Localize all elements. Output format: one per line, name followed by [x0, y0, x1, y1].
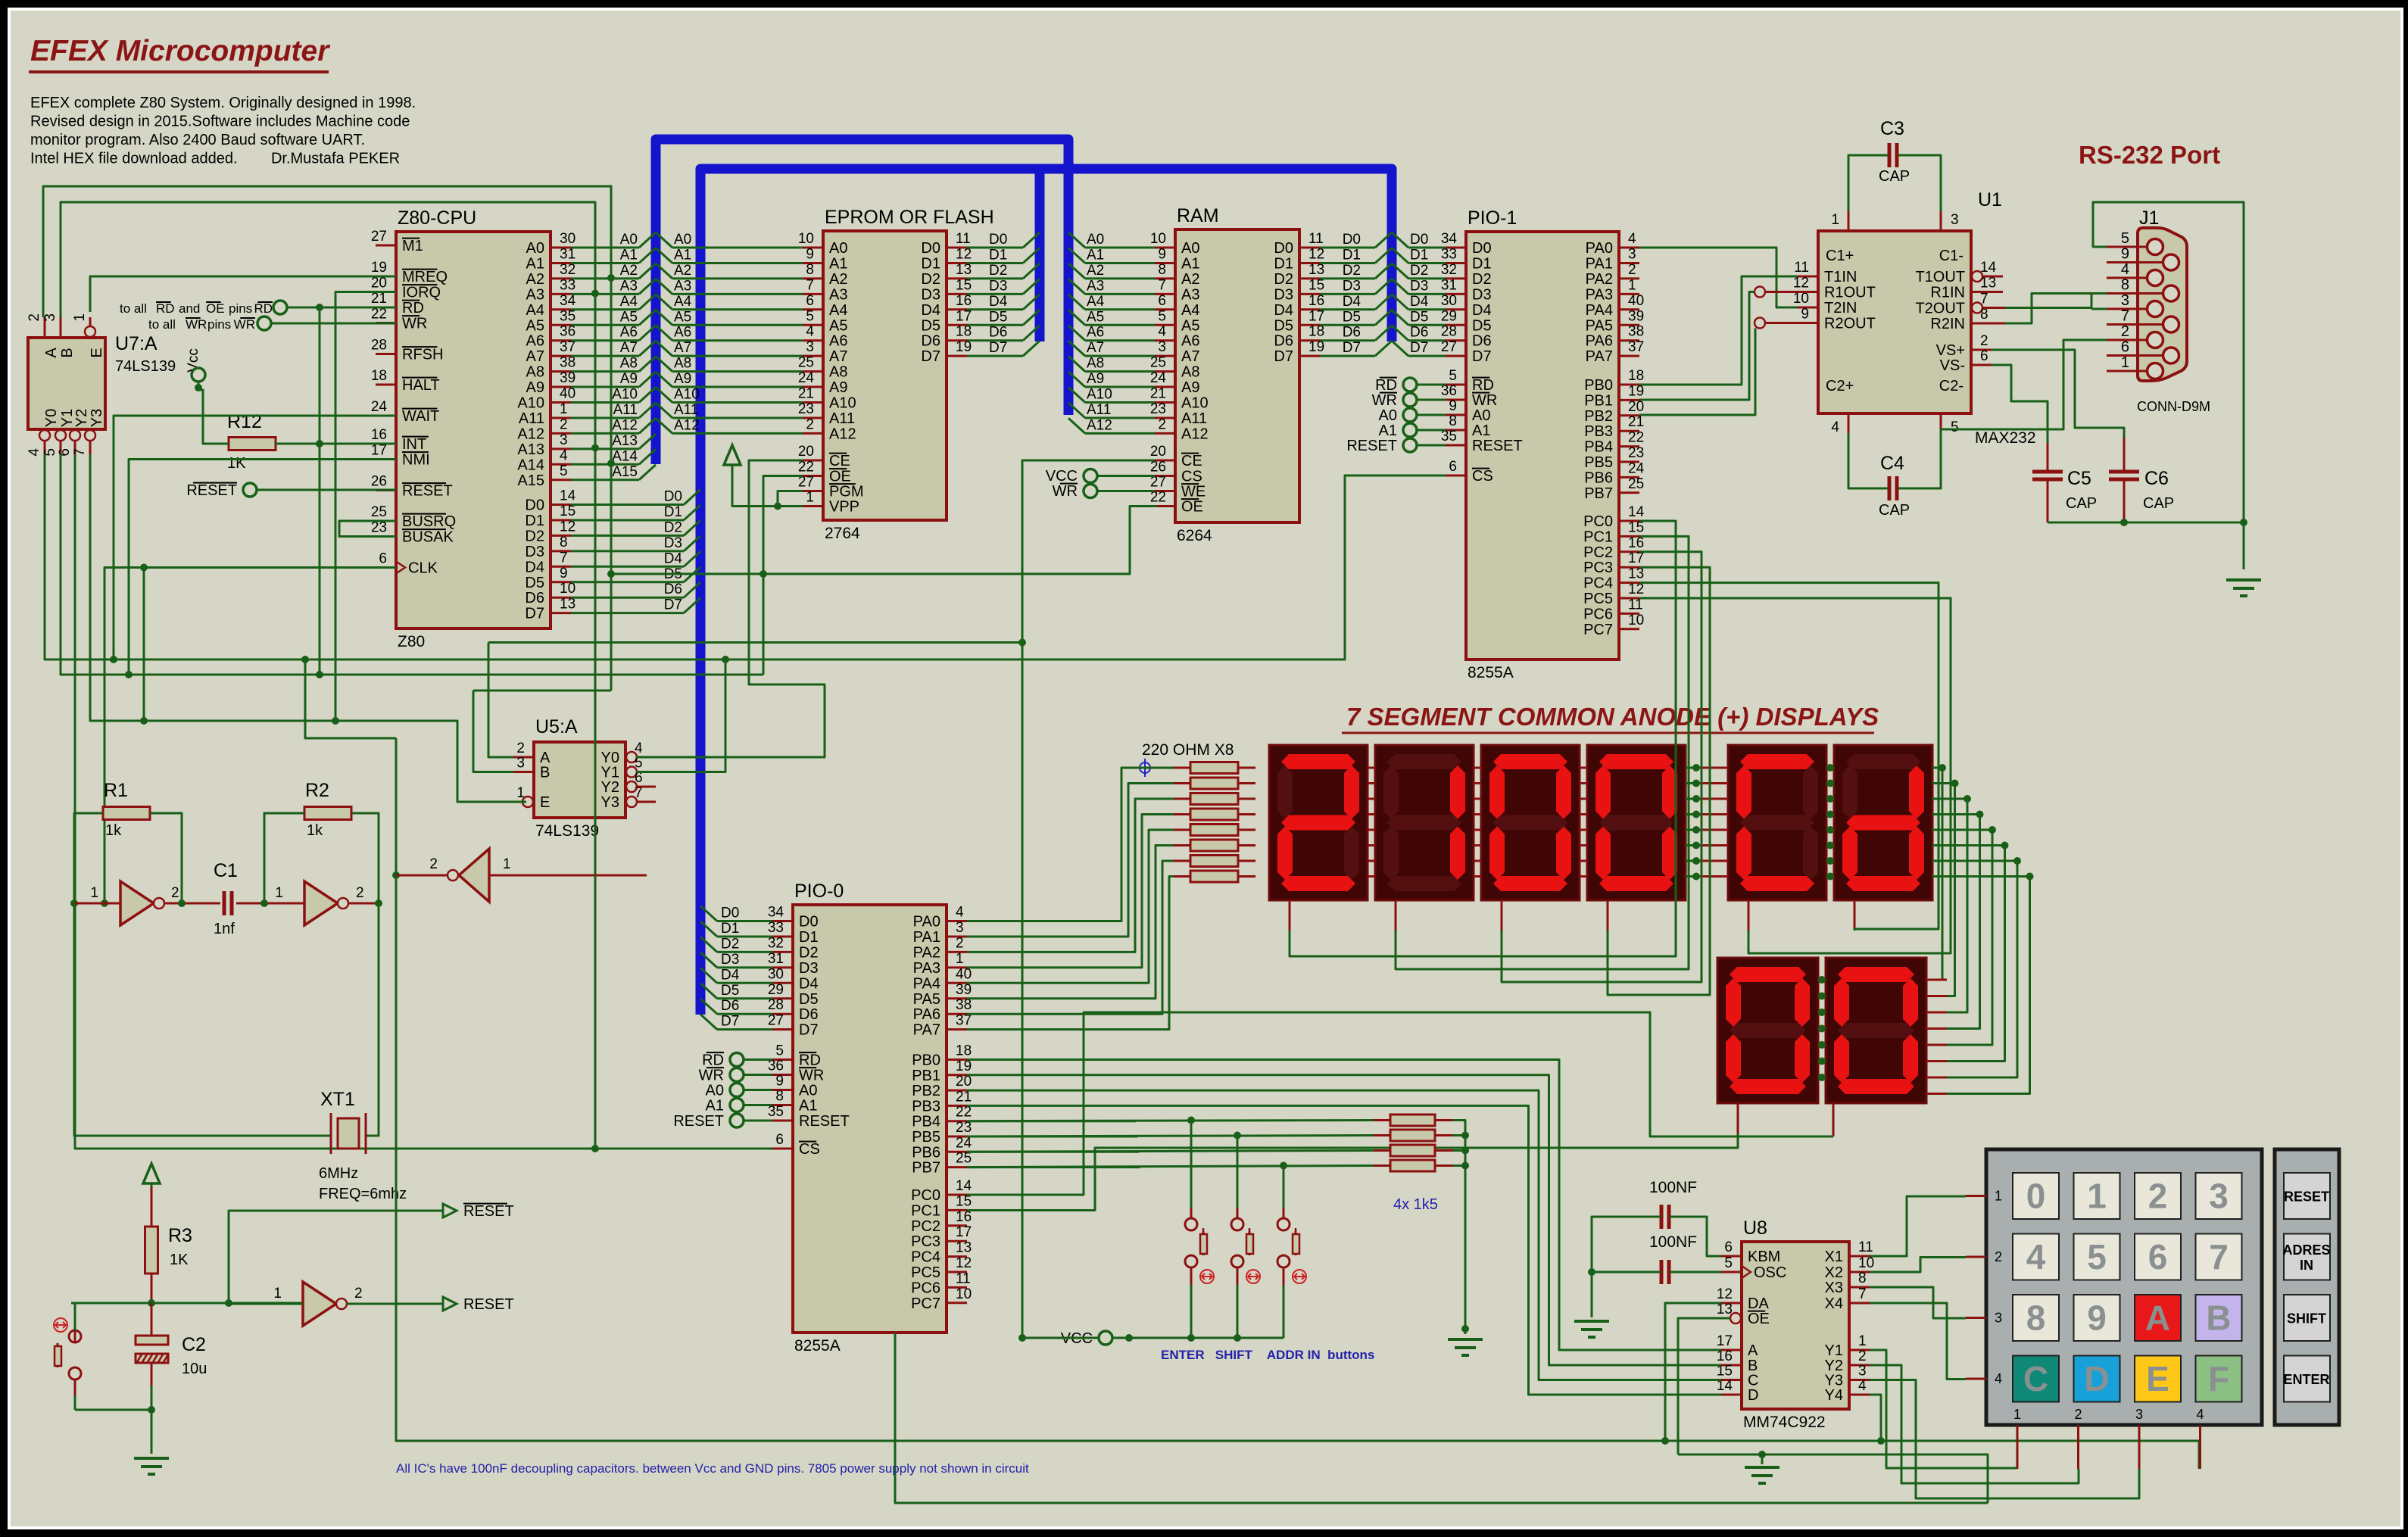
display digit 8 (0)	[1826, 958, 1926, 1103]
svg-text:T2IN: T2IN	[1824, 300, 1857, 316]
svg-text:18: 18	[1628, 368, 1644, 384]
svg-text:D3: D3	[989, 278, 1007, 294]
wire J1 pin2 route down-left	[1941, 340, 2107, 488]
svg-text:18: 18	[1308, 324, 1324, 340]
bus A to RAM A0-A12 wires	[1068, 232, 1085, 248]
svg-text:A0: A0	[1472, 407, 1490, 424]
svg-text:40: 40	[1628, 293, 1644, 309]
long bottom wire to PIO-0 area	[895, 1333, 1988, 1503]
svg-text:D1: D1	[799, 929, 819, 946]
svg-text:A1: A1	[829, 255, 847, 272]
svg-text:1: 1	[956, 951, 964, 967]
svg-text:25: 25	[798, 355, 814, 371]
svg-text:19: 19	[956, 339, 972, 355]
segment wires digit6 to bottom display pair	[1932, 768, 1947, 980]
svg-text:16: 16	[956, 293, 972, 309]
svg-text:D5: D5	[1343, 309, 1361, 325]
svg-text:1: 1	[1995, 1189, 2002, 1204]
power VCC arrow above R3	[143, 1164, 160, 1183]
svg-text:24: 24	[798, 370, 815, 386]
svg-text:3: 3	[2135, 1407, 2143, 1422]
svg-text:220 OHM X8: 220 OHM X8	[1142, 741, 1234, 759]
svg-text:2: 2	[516, 740, 525, 756]
svg-text:34: 34	[560, 293, 576, 309]
capacitor C3 CAP	[1888, 143, 1892, 167]
display digit 7 (0)	[1717, 958, 1818, 1103]
svg-text:A10: A10	[517, 395, 544, 412]
svg-text:pins: pins	[229, 301, 252, 316]
svg-text:D1: D1	[1343, 247, 1361, 263]
wire IORQ down to U5 E feed rail	[335, 292, 396, 722]
svg-text:20: 20	[1628, 399, 1644, 415]
svg-text:D6: D6	[1410, 325, 1428, 341]
svg-text:3: 3	[516, 756, 525, 772]
svg-text:3: 3	[560, 432, 568, 448]
svg-text:1: 1	[806, 490, 814, 506]
wire U5 B feed from y912 rail	[473, 691, 513, 772]
display digit 6 (d)	[1834, 745, 1932, 900]
svg-text:74LS139: 74LS139	[535, 822, 599, 840]
svg-text:6: 6	[2148, 1237, 2168, 1277]
wires PIO-1 PC0-PC3 to display digit 1-4 commons	[1289, 900, 1291, 931]
svg-text:22: 22	[798, 460, 814, 475]
capacitor C5 CAP	[2032, 470, 2063, 474]
keypad side panel RESET ADRESIN SHIFT ENTER	[2275, 1149, 2339, 1425]
svg-text:33: 33	[560, 277, 575, 293]
svg-text:D7: D7	[721, 1014, 739, 1030]
svg-text:PB7: PB7	[1584, 485, 1613, 502]
svg-text:D1: D1	[1472, 255, 1492, 272]
svg-text:13: 13	[956, 262, 972, 278]
svg-text:R12: R12	[227, 411, 262, 432]
svg-text:All IC's have 100nF decoupling: All IC's have 100nF decoupling capacitor…	[396, 1461, 1029, 1476]
svg-text:D2: D2	[1274, 271, 1293, 288]
svg-text:D7: D7	[799, 1022, 819, 1039]
terminal VCC at RAM CS	[1084, 469, 1097, 483]
svg-text:15: 15	[956, 277, 972, 293]
svg-text:PC4: PC4	[911, 1249, 940, 1266]
svg-text:Intel HEX file download added.: Intel HEX file download added. Dr.Mustaf…	[30, 151, 400, 167]
svg-text:D3: D3	[721, 952, 739, 968]
svg-text:U1: U1	[1978, 189, 2002, 210]
svg-text:PA2: PA2	[913, 944, 940, 961]
svg-text:PA6: PA6	[913, 1006, 940, 1023]
svg-text:34: 34	[768, 905, 784, 921]
svg-text:18: 18	[371, 368, 387, 384]
svg-text:34: 34	[1441, 231, 1458, 247]
wire U7 Y1 down to rail y891	[61, 454, 763, 675]
svg-text:PB5: PB5	[1584, 454, 1613, 471]
svg-text:X3: X3	[1825, 1280, 1843, 1296]
output terminal RESET	[443, 1297, 457, 1311]
wire U8 Y2 to keypad column 2	[1870, 1365, 2079, 1483]
svg-text:A13: A13	[612, 433, 638, 449]
svg-text:39: 39	[1628, 308, 1644, 324]
wire U1 R1IN stub	[1971, 291, 2003, 293]
svg-text:RD: RD	[799, 1052, 821, 1069]
svg-text:ADRES: ADRES	[2282, 1242, 2330, 1258]
svg-text:D0: D0	[989, 232, 1007, 248]
svg-text:6: 6	[57, 448, 73, 457]
svg-text:RD: RD	[156, 301, 175, 316]
svg-text:RAM: RAM	[1177, 205, 1219, 226]
wire 100NF cap1 to U8 KBM	[1670, 1217, 1721, 1256]
svg-text:WE: WE	[1181, 484, 1206, 500]
wire 1k5 pack common to ground	[1453, 1121, 1465, 1335]
svg-text:CAP: CAP	[2066, 495, 2097, 512]
display digit 2 (1)	[1375, 745, 1474, 900]
svg-text:32: 32	[1441, 262, 1457, 278]
svg-text:D7: D7	[989, 340, 1007, 356]
svg-text:D6: D6	[989, 325, 1007, 341]
svg-text:A5: A5	[1087, 309, 1104, 325]
display digit 4 (0)	[1587, 745, 1686, 900]
svg-text:A9: A9	[674, 371, 691, 387]
svg-text:A1: A1	[1472, 422, 1490, 439]
svg-text:2: 2	[2074, 1407, 2082, 1422]
bus D to PIO-0 D0-D7 wires	[700, 906, 717, 921]
svg-text:A12: A12	[1087, 417, 1112, 433]
wire reset node to inverter4	[229, 1303, 303, 1305]
svg-text:A5: A5	[1181, 317, 1199, 334]
svg-text:A10: A10	[829, 395, 856, 412]
svg-text:Y4: Y4	[1825, 1387, 1843, 1404]
svg-text:A2: A2	[1087, 263, 1104, 279]
svg-text:31: 31	[560, 246, 575, 262]
svg-text:CONN-D9M: CONN-D9M	[2137, 399, 2210, 414]
wire 100NF cap2 to U8 OSC	[1670, 1271, 1721, 1274]
svg-text:24: 24	[1150, 370, 1167, 386]
svg-text:33: 33	[768, 920, 784, 936]
svg-text:D4: D4	[799, 975, 819, 992]
svg-text:5: 5	[1724, 1255, 1733, 1271]
svg-text:D7: D7	[664, 597, 682, 613]
svg-text:20: 20	[798, 444, 814, 460]
svg-text:RESET: RESET	[1346, 438, 1397, 454]
svg-text:14: 14	[560, 488, 576, 504]
svg-text:BUSRQ: BUSRQ	[402, 513, 456, 530]
wire U7 pin3 net down right of Z80 with junctions on A3 and A13	[61, 202, 595, 875]
bus D (data bus Z80 to EPROM/RAM/PIO)	[700, 169, 1392, 1015]
svg-text:19: 19	[1308, 339, 1324, 355]
svg-text:D0: D0	[1472, 240, 1492, 257]
svg-text:13: 13	[956, 1240, 972, 1256]
capacitor C6 CAP	[2109, 470, 2139, 474]
svg-text:D2: D2	[1343, 263, 1361, 279]
svg-text:5: 5	[1951, 419, 1959, 435]
svg-text:9: 9	[2087, 1298, 2107, 1338]
svg-text:A4: A4	[1181, 302, 1199, 319]
wire R2 left down	[264, 813, 304, 903]
svg-text:7: 7	[806, 277, 814, 293]
svg-text:11: 11	[1308, 231, 1324, 247]
svg-text:9: 9	[1158, 246, 1166, 262]
svg-text:15: 15	[956, 1193, 972, 1209]
wire Z80 BUSRQ-BUSAK jog	[339, 521, 396, 537]
svg-text:D4: D4	[1343, 294, 1362, 310]
svg-text:B: B	[540, 765, 550, 781]
svg-text:A4: A4	[1087, 294, 1105, 310]
wire inverter1 output to C1	[164, 903, 220, 905]
wire 100NF caps left to ground	[1592, 1217, 1661, 1272]
svg-text:6: 6	[2121, 339, 2129, 356]
svg-text:8255A: 8255A	[794, 1337, 841, 1355]
svg-text:D1: D1	[989, 247, 1007, 263]
svg-text:R3: R3	[168, 1225, 192, 1246]
svg-text:15: 15	[1628, 519, 1644, 535]
svg-text:17: 17	[1628, 550, 1644, 566]
svg-text:CAP: CAP	[1879, 168, 1910, 185]
svg-text:1: 1	[273, 1286, 282, 1302]
svg-text:PB1: PB1	[1584, 392, 1613, 409]
svg-text:PC0: PC0	[911, 1187, 940, 1204]
svg-text:9: 9	[775, 1074, 784, 1090]
svg-text:PC0: PC0	[1583, 513, 1613, 530]
wire PIO-1 PB0 to U1 T1IN	[1639, 276, 1798, 385]
svg-text:31: 31	[1441, 277, 1457, 293]
svg-text:1: 1	[2087, 1177, 2107, 1216]
svg-text:VS-: VS-	[1940, 357, 1965, 374]
push button SHIFT	[1234, 1132, 1241, 1139]
svg-text:40: 40	[560, 386, 575, 402]
svg-text:HALT: HALT	[402, 377, 440, 394]
svg-text:A13: A13	[517, 441, 544, 458]
svg-text:8: 8	[1858, 1270, 1867, 1286]
svg-text:28: 28	[768, 997, 784, 1013]
svg-text:3: 3	[1951, 212, 1959, 228]
svg-text:A1: A1	[1087, 247, 1104, 263]
svg-text:30: 30	[560, 231, 575, 247]
svg-text:12: 12	[1717, 1286, 1733, 1302]
svg-text:A9: A9	[829, 379, 847, 396]
svg-text:D6: D6	[799, 1006, 819, 1023]
svg-text:11: 11	[956, 1270, 971, 1286]
svg-text:PB4: PB4	[1584, 439, 1613, 456]
svg-text:A0: A0	[1379, 407, 1397, 424]
svg-text:17: 17	[956, 308, 972, 324]
wire U7 pin2 net down right of Z80 with junctions on A2 and A14	[43, 186, 611, 691]
svg-text:D3: D3	[664, 535, 682, 551]
svg-text:PB6: PB6	[912, 1144, 940, 1161]
wire C5 C6 bottoms to ground rail	[2047, 479, 2049, 522]
svg-text:D0: D0	[1343, 232, 1361, 248]
capacitor C2 10u electrolytic	[136, 1336, 168, 1345]
svg-text:C2-: C2-	[1939, 378, 1964, 394]
wire inverter3 input to CS net	[489, 874, 647, 877]
wire U1 T1OUT stub	[1984, 276, 2003, 278]
svg-text:CS: CS	[1472, 468, 1493, 485]
terminal VCC for buttons	[1099, 1331, 1112, 1345]
svg-text:28: 28	[371, 338, 387, 354]
terminal RESET near Z80	[243, 483, 257, 497]
svg-text:D1: D1	[664, 504, 682, 520]
svg-text:15: 15	[1308, 277, 1324, 293]
svg-text:10: 10	[798, 231, 814, 247]
svg-text:A0: A0	[799, 1083, 817, 1099]
svg-text:A9: A9	[526, 379, 544, 396]
svg-text:Y0: Y0	[43, 409, 60, 427]
wire U8 X3 to keypad row 3	[1870, 1287, 1966, 1318]
svg-text:A10: A10	[1087, 387, 1112, 403]
svg-text:RD: RD	[254, 301, 273, 316]
svg-text:6: 6	[1158, 293, 1166, 309]
wire RAM OE to y758 rail	[763, 507, 1157, 575]
svg-text:C: C	[2023, 1359, 2048, 1398]
svg-text:A4: A4	[620, 294, 638, 310]
chip EPROM OR FLASH 2764	[798, 207, 994, 542]
svg-text:4: 4	[2026, 1237, 2046, 1277]
svg-text:D3: D3	[1343, 278, 1361, 294]
svg-text:10: 10	[1628, 613, 1644, 628]
wire U5 A feed from y848 rail	[488, 643, 513, 758]
svg-text:D0: D0	[799, 914, 819, 931]
svg-text:A0: A0	[706, 1083, 724, 1099]
svg-text:INT: INT	[402, 436, 426, 453]
svg-text:A12: A12	[612, 417, 638, 433]
ground under 100NF caps	[1574, 1320, 1609, 1323]
svg-text:A6: A6	[829, 333, 847, 350]
resistor R2 1k	[304, 807, 351, 820]
svg-text:6: 6	[1724, 1239, 1733, 1255]
svg-text:MAX232: MAX232	[1975, 429, 2036, 447]
svg-text:D5: D5	[1472, 317, 1492, 334]
svg-text:OE: OE	[1748, 1311, 1770, 1327]
svg-text:7: 7	[560, 550, 568, 566]
svg-text:18: 18	[956, 324, 972, 340]
keypad column pin stubs	[2017, 1425, 2019, 1469]
svg-text:A11: A11	[1181, 410, 1207, 427]
svg-text:2: 2	[560, 416, 568, 432]
svg-text:D7: D7	[921, 348, 940, 365]
svg-text:1: 1	[1831, 212, 1839, 228]
svg-text:D5: D5	[1274, 317, 1293, 334]
svg-text:20: 20	[1150, 444, 1166, 460]
svg-text:4: 4	[1858, 1378, 1867, 1394]
svg-text:D1: D1	[1274, 255, 1293, 272]
svg-text:100NF: 100NF	[1649, 1233, 1697, 1251]
svg-text:13: 13	[560, 597, 575, 613]
svg-text:RD: RD	[402, 300, 424, 316]
svg-text:VCC: VCC	[1046, 468, 1078, 485]
svg-text:30: 30	[768, 966, 784, 982]
svg-text:A: A	[2145, 1298, 2170, 1338]
svg-text:Z80-CPU: Z80-CPU	[398, 207, 476, 229]
wire R1 left + crystal left vertical	[74, 813, 331, 1136]
svg-text:12: 12	[1308, 246, 1324, 262]
svg-text:A5: A5	[526, 317, 544, 334]
svg-text:D0: D0	[1410, 232, 1428, 248]
wire R2 right down to crystal right	[352, 813, 379, 1136]
svg-text:PC3: PC3	[1583, 560, 1613, 576]
svg-text:A7: A7	[829, 348, 847, 365]
svg-text:A11: A11	[829, 410, 855, 427]
svg-text:PC3: PC3	[911, 1233, 940, 1250]
svg-text:A12: A12	[1181, 426, 1209, 442]
svg-text:1K: 1K	[170, 1252, 189, 1268]
svg-text:PIO-0: PIO-0	[794, 881, 844, 902]
svg-text:PA7: PA7	[1586, 348, 1613, 365]
svg-text:A6: A6	[620, 325, 638, 341]
svg-text:A1: A1	[620, 247, 638, 263]
svg-text:D0: D0	[921, 240, 940, 257]
svg-text:23: 23	[1150, 401, 1166, 417]
svg-text:28: 28	[1441, 324, 1457, 340]
svg-text:A10: A10	[1181, 395, 1209, 412]
long rail y848 to RAM CE vertical	[488, 641, 1022, 644]
svg-text:16: 16	[1628, 535, 1644, 551]
svg-text:CS: CS	[1181, 469, 1202, 485]
svg-text:15: 15	[560, 503, 575, 519]
svg-text:D1: D1	[1410, 247, 1428, 263]
svg-text:A10: A10	[612, 387, 638, 403]
svg-text:7: 7	[1858, 1286, 1867, 1302]
svg-text:74LS139: 74LS139	[115, 358, 176, 375]
svg-text:4: 4	[1158, 324, 1166, 340]
svg-text:WR: WR	[799, 1068, 824, 1084]
wire PIO-0 PC1 to bottom display digit 7 common	[1737, 1103, 1739, 1133]
svg-text:5: 5	[2087, 1237, 2107, 1277]
svg-text:6: 6	[379, 551, 387, 567]
wire inverter2 output	[348, 903, 379, 905]
EPROM D0-D7 wires into EPROM D branch bus	[967, 247, 1023, 249]
wire EPROM PGM to VPP junction	[778, 491, 803, 507]
svg-text:2: 2	[1858, 1348, 1867, 1364]
bus A to EPROM A0-A12 wires	[656, 232, 672, 248]
segment wires across gap digit5-digit6 with junction dots	[1826, 767, 1832, 769]
svg-text:100NF: 100NF	[1649, 1179, 1697, 1196]
svg-text:A0: A0	[1087, 232, 1104, 248]
svg-text:6: 6	[1449, 459, 1457, 475]
wires PIO-0 PB4-PB7 to 4x1k5 resistor pack	[967, 1120, 1136, 1122]
svg-text:7: 7	[2121, 308, 2129, 325]
svg-text:D2: D2	[989, 263, 1007, 279]
svg-text:A4: A4	[526, 302, 544, 319]
power VCC arrow at EPROM VPP	[724, 445, 741, 465]
terminals RD WR A0 A1 RESET at PIO-1	[1403, 378, 1417, 391]
svg-text:3: 3	[42, 313, 58, 322]
svg-text:D3: D3	[1410, 278, 1428, 294]
svg-text:19: 19	[371, 260, 387, 276]
svg-text:37: 37	[1628, 339, 1644, 355]
svg-text:R1IN: R1IN	[1930, 285, 1965, 301]
svg-text:ENTER SHIFT ADDR IN butt: ENTER SHIFT ADDR IN buttons	[1161, 1348, 1374, 1362]
svg-text:C6: C6	[2144, 468, 2169, 489]
svg-text:RS-232 Port: RS-232 Port	[2079, 141, 2220, 169]
svg-text:14: 14	[1628, 504, 1645, 520]
svg-text:PA0: PA0	[913, 914, 940, 931]
svg-text:A9: A9	[1181, 379, 1199, 396]
svg-text:DA: DA	[1748, 1295, 1769, 1312]
svg-text:PB0: PB0	[1584, 377, 1613, 394]
svg-text:21: 21	[1150, 386, 1166, 402]
svg-text:A7: A7	[674, 340, 691, 356]
svg-text:2: 2	[806, 416, 814, 432]
svg-text:8: 8	[1449, 413, 1457, 429]
svg-text:Y3: Y3	[601, 794, 619, 811]
svg-text:E: E	[89, 348, 105, 357]
svg-text:A3: A3	[1181, 286, 1199, 303]
svg-text:27: 27	[1441, 339, 1457, 355]
svg-text:A8: A8	[829, 364, 847, 381]
wire PIO-1 PA0 to U1 T2IN	[1639, 248, 1798, 307]
svg-text:X2: X2	[1825, 1264, 1843, 1281]
svg-text:A3: A3	[526, 286, 544, 303]
svg-text:D0: D0	[525, 497, 544, 514]
svg-text:5: 5	[560, 463, 568, 479]
svg-text:D3: D3	[525, 544, 544, 560]
svg-text:A0: A0	[674, 232, 691, 248]
display digit 3 (0)	[1481, 745, 1580, 900]
